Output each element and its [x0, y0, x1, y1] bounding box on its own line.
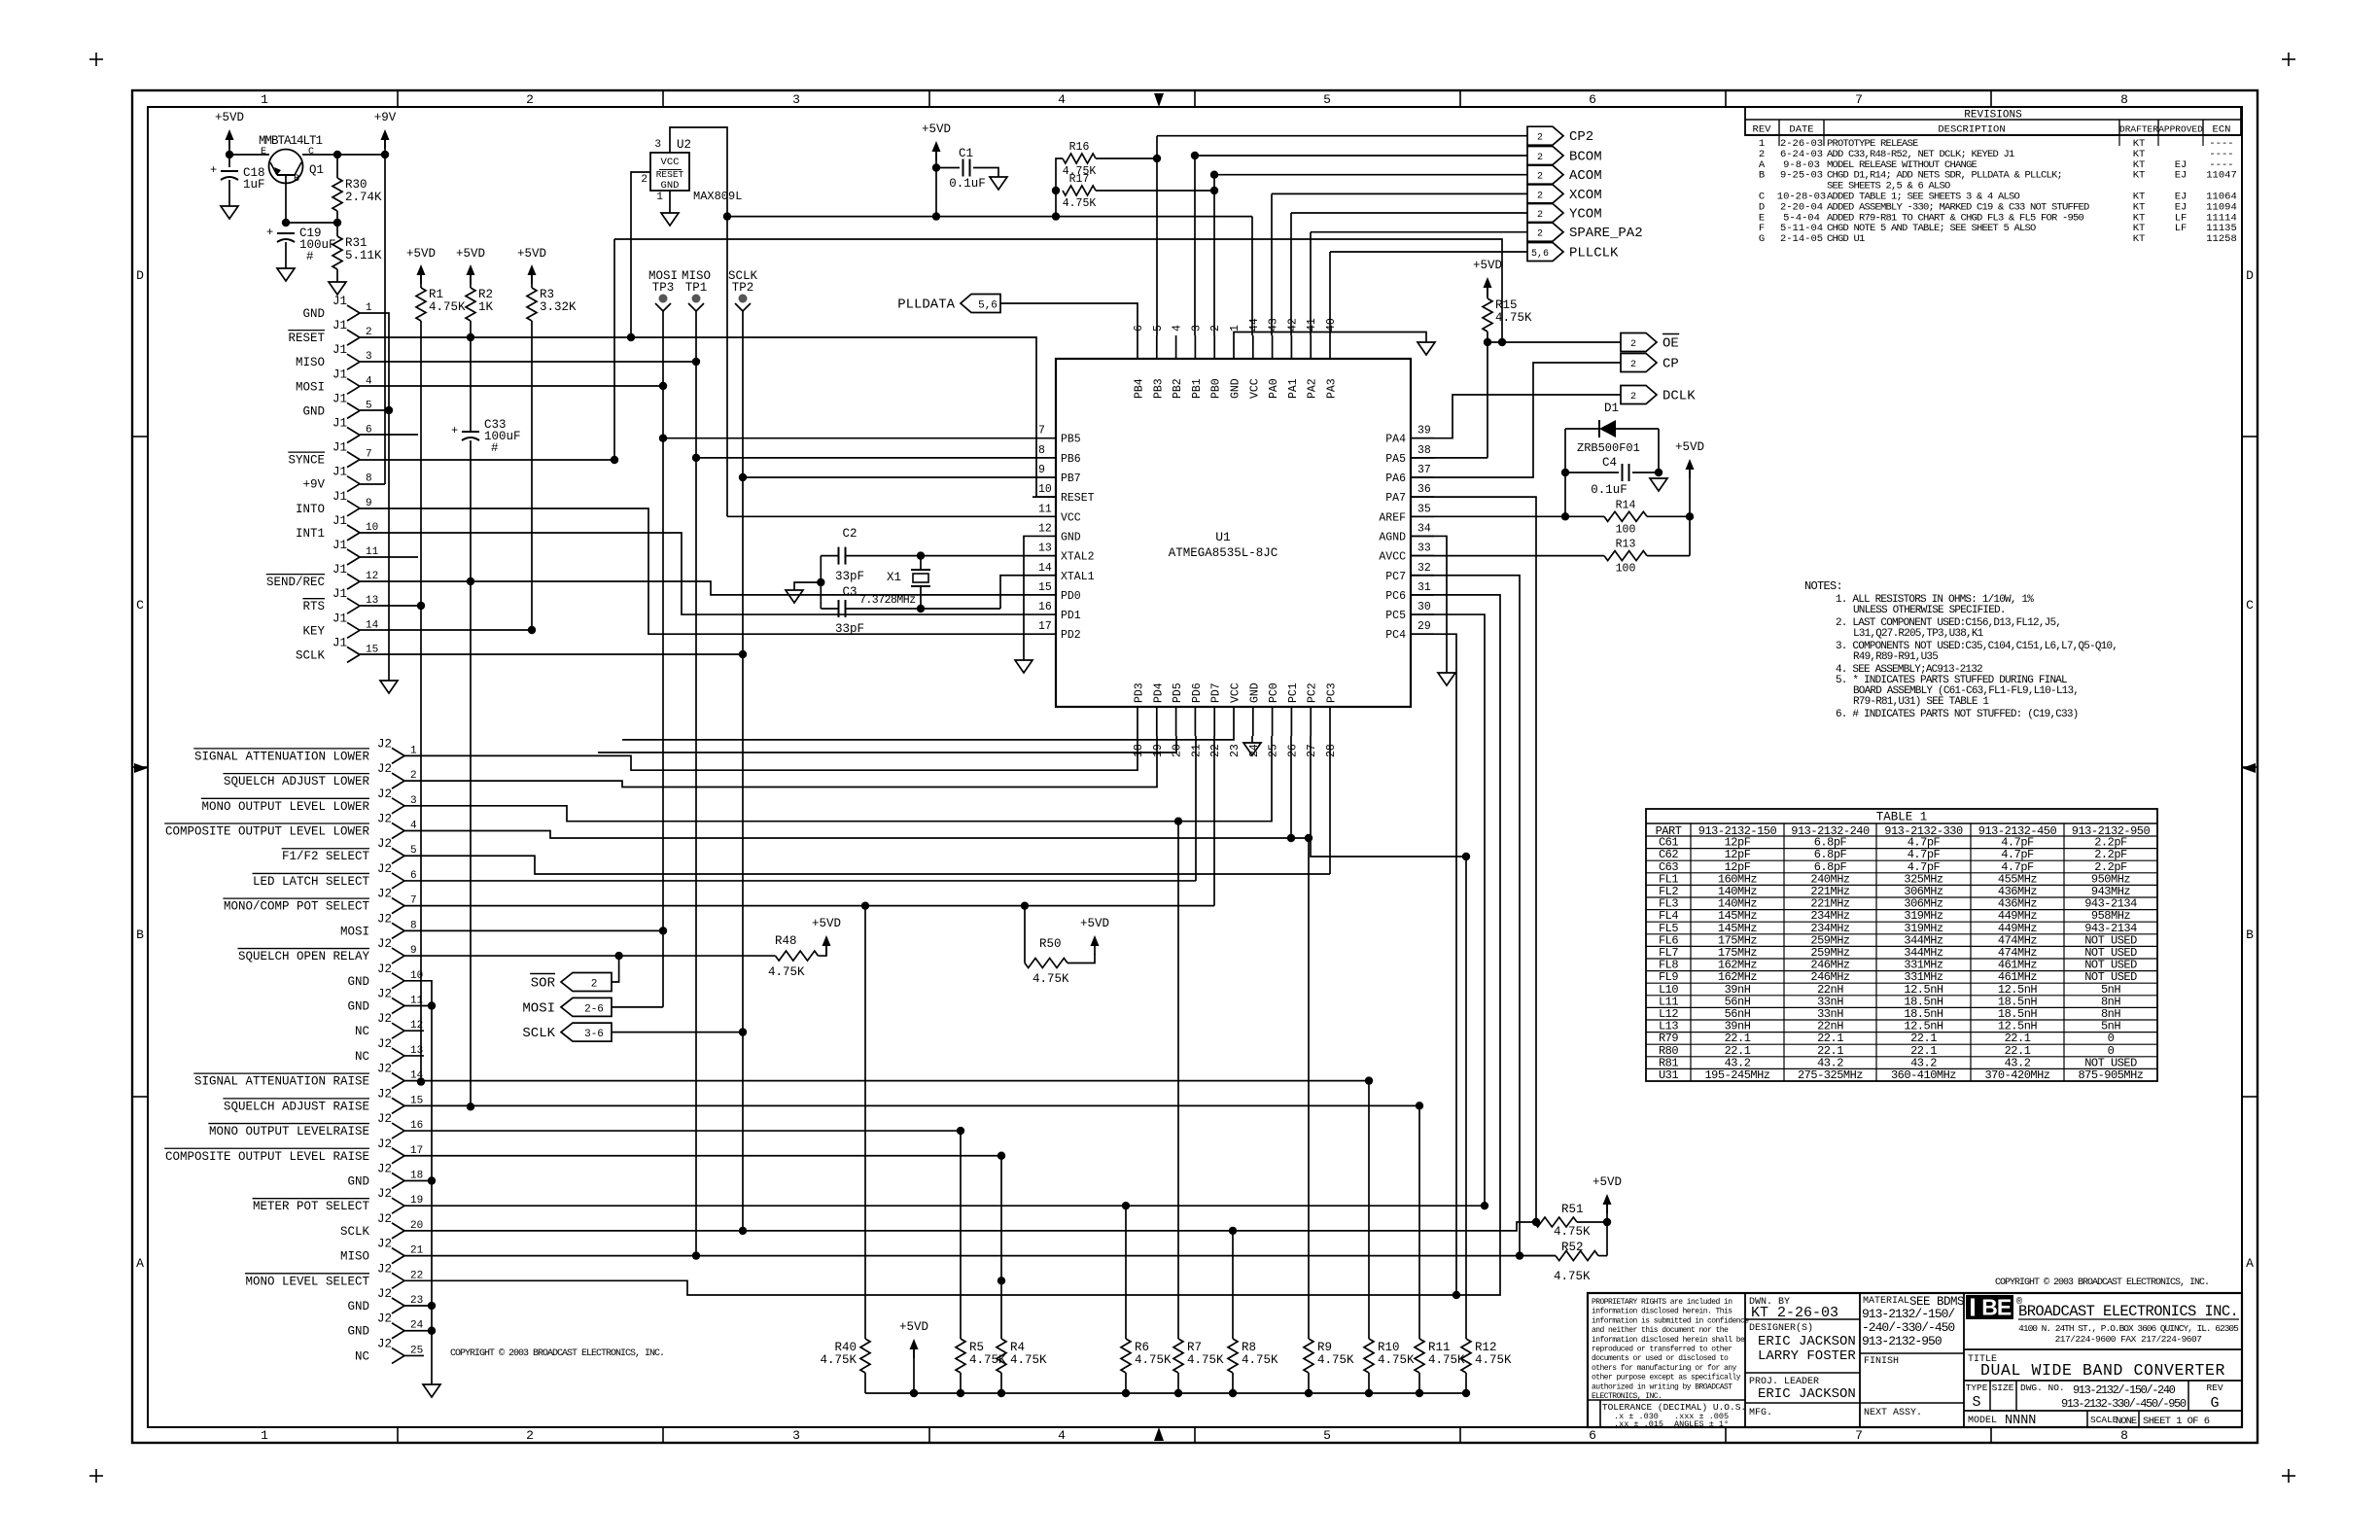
connector J2 pin 20 SCLK [392, 1223, 404, 1231]
power +5VD on bottom bus [910, 1339, 919, 1349]
ground [1650, 478, 1667, 491]
svg-text:RTS: RTS [302, 600, 325, 613]
svg-text:10: 10 [1038, 483, 1052, 496]
wire [612, 956, 619, 982]
wire [864, 1373, 866, 1393]
svg-text:4.75K: 4.75K [1242, 1353, 1278, 1367]
svg-text:AREF: AREF [1379, 511, 1406, 524]
connector J1 pin 8 +9V [347, 476, 360, 484]
svg-text:27: 27 [1306, 744, 1318, 757]
ground [786, 590, 803, 603]
connector J2 pin 19 METER POT SELECT [392, 1198, 404, 1206]
proprietary rights note [1744, 1293, 1746, 1427]
capacitor C19 [277, 232, 295, 234]
svg-text:J2: J2 [377, 1187, 392, 1201]
junction [1365, 1389, 1373, 1397]
node DCLK output flag [1621, 386, 1657, 404]
svg-text:C2: C2 [842, 527, 857, 541]
svg-text:NEXT ASSY.: NEXT ASSY. [1864, 1408, 1922, 1418]
U1 pin 23 VCC [1233, 707, 1235, 736]
wire U1 GND pin 1 to ground [1234, 332, 1426, 343]
svg-text:2: 2 [1537, 210, 1543, 221]
svg-text:REV: REV [2206, 1382, 2222, 1393]
wire J1-10 INT1 row to U1 PD1 [360, 533, 1032, 614]
resistor R7 [1173, 1339, 1183, 1373]
svg-text:R51: R51 [1561, 1203, 1584, 1216]
wire vertical to U1 pin [1156, 136, 1158, 335]
wire [960, 1373, 962, 1393]
svg-text:MONO OUTPUT LEVEL LOWER: MONO OUTPUT LEVEL LOWER [201, 800, 369, 814]
wire U2 VCC pin 3 to +5VD rail [670, 127, 727, 217]
capacitor C3 [838, 600, 840, 617]
svg-text:J2: J2 [377, 737, 392, 751]
svg-text:L31,Q27.R205,TP3,U38,K1: L31,Q27.R205,TP3,U38,K1 [1853, 628, 1984, 640]
junction [1191, 152, 1199, 159]
svg-text:13: 13 [1038, 542, 1052, 555]
svg-text:TYPE: TYPE [1966, 1382, 1988, 1393]
wire PC4 route [1411, 634, 1456, 1295]
svg-text:4.75K: 4.75K [820, 1353, 857, 1367]
junction [1365, 1076, 1373, 1084]
connector J2 pin 12 NC [392, 1023, 404, 1031]
svg-text:4.75K: 4.75K [1428, 1353, 1465, 1367]
wire PA5 row [1411, 457, 1487, 459]
svg-text:S: S [1972, 1394, 1980, 1411]
svg-text:3.32K: 3.32K [540, 300, 577, 314]
svg-text:B: B [1981, 1295, 1997, 1320]
junction [1122, 1202, 1130, 1209]
svg-text:R17: R17 [1069, 173, 1090, 186]
svg-text:11258: 11258 [2206, 233, 2237, 245]
svg-text:5: 5 [1323, 92, 1331, 107]
svg-text:J2: J2 [377, 1212, 392, 1226]
resistor R12 [1461, 1339, 1471, 1373]
svg-text:BCOM: BCOM [1569, 150, 1602, 165]
junction [467, 577, 474, 585]
svg-text:B: B [2246, 927, 2254, 942]
svg-text:R40: R40 [834, 1341, 857, 1354]
svg-text:NOTES:: NOTES: [1804, 579, 1842, 593]
junction [1052, 187, 1060, 194]
svg-text:+5VD: +5VD [456, 247, 485, 261]
wire PC5 vertical [1411, 614, 1485, 1206]
svg-text:A: A [136, 1256, 144, 1271]
svg-text:2: 2 [1537, 153, 1543, 163]
U1 pin 42 PA1 [1290, 335, 1292, 359]
svg-text:J1: J1 [332, 441, 347, 455]
svg-text:16: 16 [1038, 601, 1052, 613]
svg-text:TP3: TP3 [652, 281, 675, 295]
svg-text:BROADCAST ELECTRONICS INC.: BROADCAST ELECTRONICS INC. [2018, 1303, 2238, 1320]
svg-text:+5VD: +5VD [215, 111, 244, 124]
svg-text:6: 6 [1133, 325, 1145, 332]
type size dwg-no rev cells [1989, 1381, 1991, 1411]
svg-text:4.75K: 4.75K [768, 965, 805, 979]
wire U1 VCC pin 23 route [622, 736, 1234, 740]
svg-text:PA5: PA5 [1385, 453, 1406, 466]
junction [957, 1389, 964, 1397]
svg-text:SIZE: SIZE [1992, 1382, 2014, 1393]
svg-text:6: 6 [1589, 92, 1596, 107]
svg-text:SYNCE: SYNCE [288, 454, 325, 468]
wire J2-3 row to U1 PC0 [404, 736, 1272, 822]
junction [957, 1127, 964, 1135]
wire C2/C3 left leg [820, 556, 822, 609]
wire vertical to R8 [1232, 1231, 1234, 1339]
junction [692, 1251, 700, 1259]
transistor Q1 MMBTA14LT1 [269, 150, 303, 184]
wire J1-14 KEY row [360, 629, 532, 631]
svg-text:VCC: VCC [1230, 682, 1242, 703]
svg-text:+5VD: +5VD [1675, 440, 1704, 454]
svg-text:PB7: PB7 [1061, 472, 1081, 485]
svg-text:R30: R30 [345, 178, 367, 192]
wire bottom +5VD bus [865, 1392, 1466, 1394]
svg-text:information is submitted in co: information is submitted in confidence [1592, 1316, 1749, 1325]
wire J1-15 SCLK row [360, 653, 743, 655]
svg-text:D: D [2246, 268, 2254, 283]
svg-text:METER POT SELECT: METER POT SELECT [253, 1200, 370, 1213]
svg-text:INTO: INTO [296, 503, 325, 516]
junction [917, 551, 925, 559]
node CP output flag [1621, 354, 1657, 372]
svg-text:26: 26 [1286, 744, 1299, 757]
svg-text:2: 2 [641, 174, 647, 186]
svg-text:SEND/REC: SEND/REC [266, 576, 325, 589]
svg-text:34: 34 [1417, 522, 1431, 535]
svg-text:R49,R89-R91,U35: R49,R89-R91,U35 [1853, 651, 1938, 663]
svg-text:11047: 11047 [2206, 170, 2237, 182]
svg-text:PD6: PD6 [1191, 682, 1204, 703]
U1 pin 22 PD7 [1213, 707, 1215, 736]
connector J2 pin 5 F1/F2 SELECT [392, 848, 404, 856]
svg-text:#: # [491, 441, 499, 455]
svg-text:CP2: CP2 [1569, 129, 1593, 145]
svg-text:J2: J2 [377, 937, 392, 951]
capacitor C33 [462, 431, 479, 433]
svg-text:43: 43 [1268, 318, 1280, 332]
svg-text:NC: NC [355, 1349, 369, 1363]
resistor R14 [1411, 515, 1604, 517]
junction [1452, 1291, 1460, 1299]
power +5VD right of R48 [822, 935, 831, 946]
ground [1438, 673, 1455, 685]
svg-text:PC2: PC2 [1307, 682, 1319, 703]
wire vertical to R40 [864, 906, 866, 1339]
svg-text:KT: KT [2133, 233, 2146, 245]
svg-text:CHGD U1: CHGD U1 [1827, 233, 1865, 245]
svg-text:275-325MHz: 275-325MHz [1798, 1068, 1863, 1082]
wire J2-9 SQUELCH OPEN RELAY row with R48 [404, 955, 776, 957]
svg-text:4: 4 [1058, 92, 1066, 107]
wire U1 PD5 route [598, 736, 1176, 752]
connector J2 pin 16 MONO OUTPUT LEVELRAISE [392, 1123, 404, 1131]
wire J2-12 NC stub [404, 1030, 424, 1032]
U1 pin 4 PB2 [1175, 335, 1177, 359]
node PLLCLK output flag [1527, 243, 1563, 262]
wire J2-21 MISO row to R52 [404, 1255, 1556, 1257]
svg-text:DRAFTER: DRAFTER [2119, 124, 2158, 135]
node YCOM output flag [1527, 204, 1563, 223]
svg-text:44: 44 [1248, 318, 1261, 332]
svg-text:7: 7 [1855, 1428, 1863, 1443]
svg-text:PC7: PC7 [1385, 571, 1406, 583]
svg-text:J1: J1 [332, 587, 347, 601]
svg-text:DATE: DATE [1789, 124, 1813, 136]
svg-text:PLLCLK: PLLCLK [1569, 246, 1619, 262]
svg-text:+: + [266, 226, 273, 239]
svg-text:28: 28 [1325, 744, 1338, 757]
svg-text:29: 29 [1417, 620, 1431, 633]
svg-text:U31: U31 [1659, 1068, 1678, 1082]
wire J2-14 row to R10 [404, 1080, 1369, 1082]
connector J2 pin 1 SIGNAL ATTENUATION LOWER [392, 748, 404, 755]
connector J1 pin 2 RESET [347, 330, 360, 337]
svg-text:33pF: 33pF [835, 570, 864, 583]
U1 pin 32 PC7 [1411, 575, 1434, 577]
resistor R10 [1364, 1339, 1374, 1373]
svg-text:J1: J1 [332, 539, 347, 552]
wire J1-3 MISO row [360, 361, 696, 363]
junction [1229, 1389, 1237, 1397]
svg-text:GND: GND [302, 404, 325, 418]
svg-text:0.1uF: 0.1uF [949, 177, 986, 191]
svg-text:NC: NC [355, 1050, 369, 1064]
connector J2 pin 3 MONO OUTPUT LEVEL LOWER [392, 798, 404, 806]
U1 pin 26 PC1 [1290, 707, 1292, 736]
svg-text:COPYRIGHT © 2003 BROADCAST ELE: COPYRIGHT © 2003 BROADCAST ELECTRONICS, … [1995, 1277, 2209, 1288]
svg-text:2: 2 [526, 1428, 534, 1443]
svg-text:OE: OE [1662, 336, 1679, 352]
U1 pin 29 PC4 [1411, 633, 1434, 635]
svg-text:J2: J2 [377, 837, 392, 851]
resistor R50 leg [1024, 906, 1026, 963]
svg-text:COMPOSITE OUTPUT LEVEL RAISE: COMPOSITE OUTPUT LEVEL RAISE [165, 1150, 369, 1164]
svg-text:+9V: +9V [302, 478, 325, 492]
resistor R8 [1228, 1339, 1238, 1373]
junction [1686, 512, 1694, 520]
svg-text:2: 2 [1630, 339, 1636, 350]
capacitor C18 [221, 170, 238, 172]
svg-text:.xx ± .015: .xx ± .015 [1614, 1419, 1663, 1429]
connector J2 pin 6 LED LATCH SELECT [392, 873, 404, 881]
resistor R48 [776, 951, 819, 961]
wire D1 loop right vertical [1658, 429, 1660, 472]
ground [990, 177, 1007, 190]
svg-text:C: C [308, 147, 314, 157]
node ACOM output flag [1527, 165, 1563, 184]
wire vertical to R11 [1418, 1105, 1420, 1339]
svg-text:J2: J2 [377, 762, 392, 776]
svg-text:9: 9 [366, 498, 372, 509]
resistor R1 [420, 273, 422, 288]
wire +5VD down to U1 VCC pin 11 [726, 217, 728, 517]
wire J1-6 stub [360, 434, 418, 436]
wire [302, 154, 385, 156]
wire SYNCE vertical [613, 239, 615, 460]
wire J1-9 INTO row to U1 PD2 [360, 508, 1032, 634]
svg-text:9-25-03: 9-25-03 [1780, 170, 1823, 182]
svg-text:7: 7 [1038, 425, 1045, 437]
svg-text:+5VD: +5VD [899, 1320, 928, 1334]
junction [817, 578, 824, 586]
svg-text:J2: J2 [377, 988, 392, 1001]
svg-text:PA6: PA6 [1385, 472, 1406, 485]
svg-text:PD5: PD5 [1172, 682, 1184, 703]
svg-text:CP: CP [1662, 357, 1679, 372]
svg-text:J1: J1 [332, 612, 347, 625]
svg-text:ERIC JACKSON: ERIC JACKSON [1758, 1334, 1856, 1349]
svg-text:2-6: 2-6 [584, 1003, 604, 1015]
junction [1305, 1389, 1312, 1397]
junction [417, 602, 425, 610]
svg-text:875-905MHz: 875-905MHz [2078, 1068, 2143, 1082]
svg-text:4100 N. 24TH ST., P.O.BOX 3606: 4100 N. 24TH ST., P.O.BOX 3606 QUINCY, I… [2018, 1323, 2239, 1334]
svg-text:ANGLES ± 1°: ANGLES ± 1° [1674, 1419, 1729, 1429]
svg-text:0.1uF: 0.1uF [1591, 483, 1627, 497]
svg-text:GND: GND [347, 975, 369, 989]
svg-text:40: 40 [1325, 318, 1338, 332]
wire [229, 154, 269, 156]
node SOR input flag [561, 973, 612, 992]
wire vertical to R9 [1308, 838, 1310, 1339]
svg-text:ACOM: ACOM [1569, 168, 1602, 184]
svg-text:-240/-330/-450: -240/-330/-450 [1862, 1320, 1954, 1335]
svg-text:ELECTRONICS, INC.: ELECTRONICS, INC. [1592, 1392, 1662, 1401]
wire vertical to U1 pin [1329, 252, 1331, 335]
svg-text:R16: R16 [1069, 141, 1090, 154]
svg-text:PD0: PD0 [1061, 590, 1081, 603]
connector J2 pin 14 SIGNAL ATTENUATION RAISE [392, 1073, 404, 1081]
connector J2 pin 15 SQUELCH ADJUST RAISE [392, 1098, 404, 1105]
U1 pin 21 PD6 [1194, 707, 1196, 736]
connector J2 pin 23 GND [392, 1298, 404, 1306]
svg-text:SIGNAL ATTENUATION LOWER: SIGNAL ATTENUATION LOWER [194, 750, 370, 763]
wire J1-5 GND stub [360, 409, 389, 411]
svg-text:3: 3 [792, 1428, 800, 1443]
wire J2-20 SCLK row to R51 [404, 1222, 1534, 1231]
power +5VD above R3 [528, 264, 537, 275]
wire XTAL1 route [1000, 576, 1032, 609]
svg-text:5: 5 [1323, 1428, 1331, 1443]
junction [1462, 853, 1470, 860]
wire J2-16 row to R5 [404, 1130, 961, 1132]
connector J1 pin 11 NC [347, 549, 360, 557]
resistor R3 [531, 273, 533, 288]
wire R17 right to PB0 vertical [1096, 190, 1214, 192]
svg-text:GND: GND [1061, 531, 1081, 543]
svg-text:E: E [1997, 1295, 2012, 1320]
connector J1 pin 15 SCLK [347, 647, 360, 654]
svg-text:217/224-9600 FAX 217/224-9607: 217/224-9600 FAX 217/224-9607 [2055, 1334, 2202, 1345]
wire J2-22 row to PC6 via jog [404, 595, 1500, 1295]
svg-text:MONO/COMP POT SELECT: MONO/COMP POT SELECT [224, 900, 370, 914]
wire [1157, 135, 1527, 137]
wire vertical to U1 pin [1213, 175, 1215, 335]
wire OE row [1487, 341, 1621, 343]
junction [739, 650, 747, 658]
connector J2 pin 4 COMPOSITE OUTPUT LEVEL LOWER [392, 823, 404, 831]
svg-text:DCLK: DCLK [1662, 389, 1696, 404]
svg-text:MAX809L: MAX809L [693, 190, 742, 203]
svg-text:J2: J2 [377, 1337, 392, 1350]
svg-text:MFG.: MFG. [1749, 1408, 1772, 1418]
wire DCLK row [1411, 395, 1621, 438]
svg-text:SOR: SOR [531, 976, 556, 992]
svg-text:C3: C3 [842, 585, 857, 599]
svg-text:4.75K: 4.75K [1010, 1353, 1047, 1367]
svg-text:REVISIONS: REVISIONS [1964, 110, 2022, 122]
U1 pin 14 XTAL1 [1032, 575, 1056, 577]
svg-text:J2: J2 [377, 962, 392, 976]
svg-text:195-245MHz: 195-245MHz [1704, 1068, 1769, 1082]
wire J1-13 RTS row [360, 605, 421, 607]
U1 pin 7 PB5 [1032, 437, 1056, 439]
wire [1000, 1373, 1002, 1393]
svg-text:+5VD: +5VD [1473, 259, 1502, 272]
wire rail corner down to U1 VCC pin 44 [1251, 217, 1253, 335]
svg-text:4.75K: 4.75K [1554, 1270, 1591, 1283]
svg-text:MISO: MISO [296, 356, 325, 369]
resistor R2 [470, 273, 472, 288]
svg-text:4.75K: 4.75K [429, 300, 466, 314]
svg-text:R31: R31 [345, 236, 367, 250]
wire J2-1 row to U1 PD3 [404, 736, 1137, 770]
resistor R6 [1121, 1339, 1131, 1373]
connector J1 pin 5 GND [347, 402, 360, 410]
U1 pin 33 AVCC [1411, 555, 1434, 557]
svg-text:B: B [136, 927, 144, 942]
wire J1-1 GND to trunk [360, 313, 389, 681]
U1 pin 12 GND [1032, 535, 1056, 537]
junction [282, 219, 290, 227]
U1 pin 37 PA6 [1411, 476, 1434, 478]
svg-text:10: 10 [366, 522, 378, 534]
wire U1 PD6 stub down [1195, 736, 1197, 881]
junction [997, 1277, 1005, 1284]
wire vertical to R12 [1465, 857, 1467, 1339]
resistor R15 [1484, 277, 1492, 288]
svg-text:B: B [294, 174, 299, 185]
svg-text:PA2: PA2 [1307, 378, 1319, 399]
svg-text:C: C [2246, 598, 2254, 612]
svg-text:PC6: PC6 [1385, 590, 1406, 603]
connector J2 pin 11 GND [392, 998, 404, 1006]
wire J2-2 row to U1 PD4 [404, 736, 1157, 787]
node CP2 output flag [1527, 126, 1563, 145]
wire J2-8 MOSI row [404, 929, 663, 931]
svg-text:DESCRIPTION: DESCRIPTION [1938, 124, 2005, 136]
ground [221, 206, 238, 219]
svg-text:MMBTA14LT1: MMBTA14LT1 [259, 134, 323, 148]
svg-text:J2: J2 [377, 1087, 392, 1101]
svg-text:PROPRIETARY RIGHTS are include: PROPRIETARY RIGHTS are included in [1592, 1298, 1732, 1307]
svg-text:XCOM: XCOM [1569, 188, 1602, 203]
connector J2 pin 24 GND [392, 1323, 404, 1331]
junction [1052, 212, 1060, 220]
svg-text:3-6: 3-6 [584, 1029, 604, 1040]
svg-text:15: 15 [1038, 581, 1052, 594]
svg-text:DWG. NO.: DWG. NO. [2020, 1382, 2065, 1393]
resistor R16 [1056, 158, 1063, 191]
svg-text:+: + [210, 163, 217, 177]
ground [661, 213, 679, 226]
connector J1 pin 3 MISO [347, 354, 360, 362]
svg-text:PC1: PC1 [1287, 682, 1300, 703]
wire TP1 stem = MISO trunk [695, 311, 697, 1257]
connector J2 pin 7 MONO/COMP POT SELECT [392, 898, 404, 906]
wire U1 PC3 stub down [1329, 736, 1331, 874]
